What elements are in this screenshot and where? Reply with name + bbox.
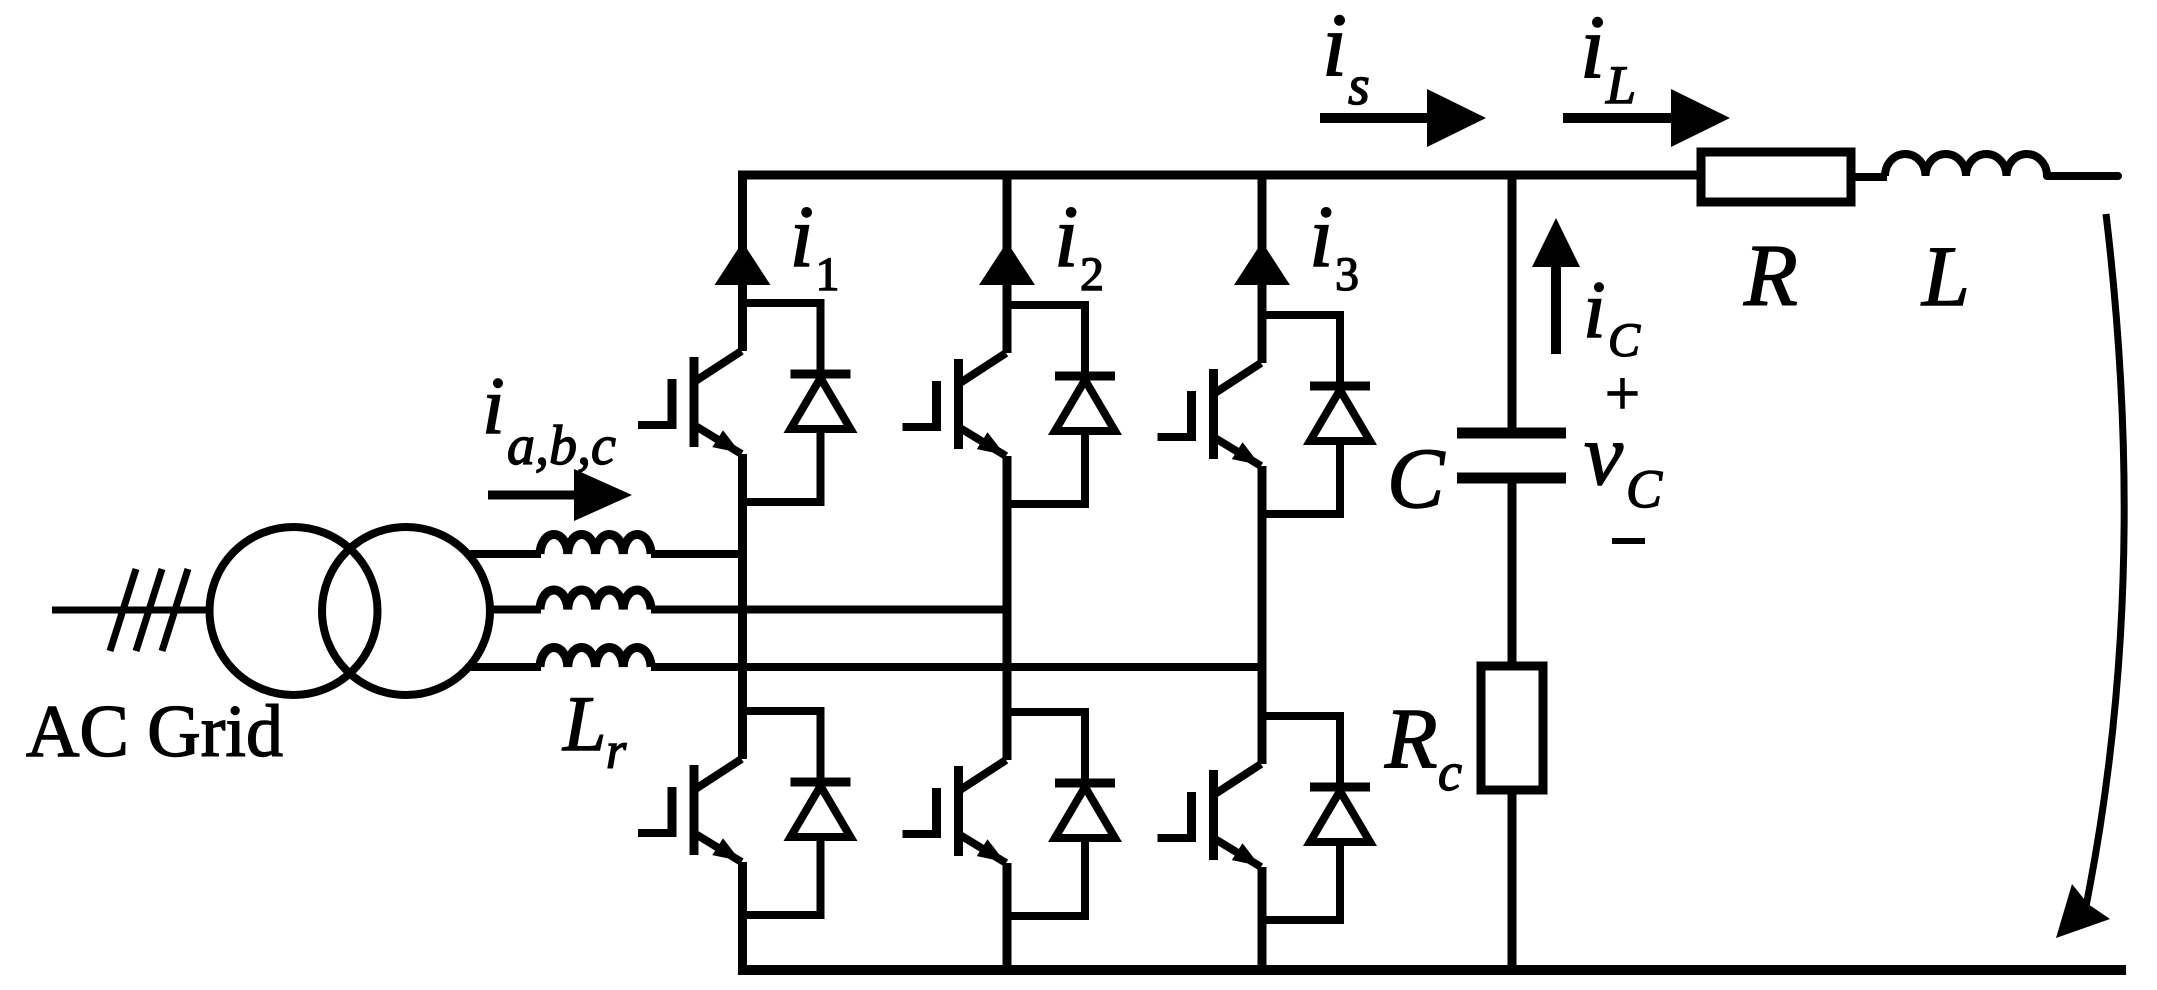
svg-text:R: R: [1384, 690, 1438, 786]
label i_a,b,c: [482, 360, 616, 477]
label iC: [1583, 264, 1641, 367]
transistor Q4 (lower leg 1) (IGBT): [638, 759, 742, 862]
svg-text:i: i: [1322, 0, 1347, 95]
svg-text:i: i: [1580, 0, 1605, 97]
svg-text:a,b,c: a,b,c: [507, 415, 616, 477]
transistor Q3 (upper leg 3) (IGBT): [1158, 363, 1262, 466]
wire: phase a from transformer: [466, 550, 541, 558]
wire: upper leg 2 diode branch: [1007, 301, 1085, 508]
label is: [1322, 0, 1370, 117]
arrow iL: [1563, 89, 1730, 147]
svg-text:i: i: [790, 189, 814, 286]
transistor Q2 (upper leg 2) (IGBT): [903, 353, 1007, 456]
diode D2: [1055, 376, 1115, 431]
wire: Rc to bottom bus: [1508, 790, 1517, 970]
transistor Q5 (lower leg 2) (IGBT): [903, 760, 1007, 863]
wire: lower leg 2 diode branch: [1007, 708, 1085, 920]
svg-text:AC Grid: AC Grid: [26, 691, 283, 773]
svg-text:L: L: [562, 680, 606, 767]
curved arrow: load current return path: [2056, 214, 2124, 938]
wire: upper leg 1 diode branch: [743, 299, 821, 506]
svg-text:C: C: [1626, 459, 1663, 519]
transistor Q1 (upper leg 1) (IGBT): [638, 351, 742, 454]
svg-text:r: r: [606, 723, 627, 780]
label Rc: [1384, 690, 1462, 802]
wire: bridge leg 1: [738, 171, 747, 975]
label − polarity: [1612, 538, 1645, 544]
wire: R to L: [1851, 173, 1887, 181]
svg-text:R: R: [1743, 228, 1798, 325]
transformer secondary winding: [322, 527, 490, 695]
svg-text:C: C: [1387, 430, 1446, 526]
3-phase slash marks: [110, 569, 188, 651]
arrow i1 current direction: [715, 242, 771, 285]
svg-text:s: s: [1348, 55, 1370, 117]
svg-text:c: c: [1438, 742, 1462, 802]
wire: bridge leg 2: [1003, 171, 1012, 975]
transistor Q6 (lower leg 3) (IGBT): [1158, 764, 1262, 867]
diode D3: [1310, 386, 1370, 441]
wire: upper leg 3 diode branch: [1262, 311, 1340, 518]
inductor L (load): [1885, 154, 2047, 176]
resistor R: [1701, 152, 1851, 202]
inductor Lr phase b: [540, 590, 651, 609]
diode D1: [791, 374, 851, 429]
svg-text:i: i: [1583, 264, 1606, 355]
svg-text:3: 3: [1335, 248, 1359, 301]
wire: phase a to bridge leg 1: [651, 550, 747, 558]
label Lr: [562, 680, 627, 780]
resistor Rc: [1481, 666, 1543, 790]
wire: AC grid feeder: [52, 607, 212, 614]
arrow i_a,b,c: [488, 469, 632, 521]
wire: top DC bus: [738, 171, 1701, 180]
svg-text:2: 2: [1080, 248, 1104, 301]
diode D6: [1310, 787, 1370, 842]
wire: phase b from transformer: [488, 606, 541, 614]
wire: phase c from transformer: [467, 663, 541, 671]
wire: lower leg 1 diode branch: [743, 707, 821, 919]
svg-text:i: i: [1054, 189, 1078, 286]
arrow iC: [1532, 218, 1580, 354]
svg-text:L: L: [1920, 228, 1970, 324]
svg-text:1: 1: [816, 248, 840, 301]
label i3: [1309, 189, 1359, 301]
label iL: [1580, 0, 1636, 115]
svg-text:v: v: [1584, 407, 1624, 504]
inductor Lr phase c: [540, 648, 651, 667]
wire: L to output terminal: [2047, 172, 2118, 180]
arrow i2 current direction: [979, 242, 1035, 285]
svg-text:i: i: [482, 360, 505, 451]
arrow is: [1320, 89, 1486, 147]
wire: phase c to bridge leg 3: [651, 663, 1266, 671]
diode D5: [1055, 783, 1115, 838]
label i2: [1054, 189, 1104, 301]
wire: bridge leg 3: [1258, 171, 1267, 975]
svg-text:i: i: [1309, 189, 1333, 286]
wire: bottom DC bus: [738, 965, 2126, 975]
wire: lower leg 3 diode branch: [1262, 712, 1340, 924]
transformer primary winding: [210, 527, 378, 695]
wire: DC node to capacitor: [1508, 171, 1517, 429]
svg-text:L: L: [1605, 55, 1636, 115]
label i1: [790, 189, 840, 301]
inductor Lr phase a: [540, 535, 651, 554]
diode D4: [791, 782, 851, 837]
arrow i3 current direction: [1234, 242, 1290, 285]
capacitor C plates: [1457, 433, 1566, 478]
label vC: [1584, 407, 1663, 519]
wire: phase b to bridge leg 2: [651, 606, 1011, 614]
wire: capacitor to resistor Rc: [1508, 482, 1517, 668]
